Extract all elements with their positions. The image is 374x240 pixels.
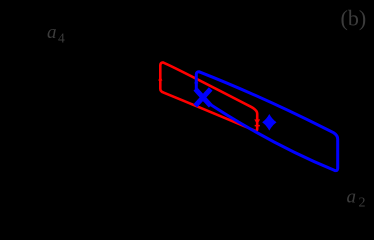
svg-text:4: 4 bbox=[58, 30, 65, 45]
marker X (bold cross) bbox=[195, 89, 210, 106]
svg-text:a: a bbox=[47, 22, 57, 43]
svg-text:2: 2 bbox=[359, 195, 366, 210]
red arrow on left edge (up) bbox=[158, 75, 162, 80]
label a2 bbox=[347, 187, 366, 211]
svg-text:(b): (b) bbox=[341, 6, 367, 31]
red loop bbox=[160, 62, 257, 130]
blue loop bbox=[196, 72, 337, 171]
red arrow on right edge (down) bbox=[254, 119, 260, 124]
marker star (concave diamond) bbox=[262, 114, 276, 131]
svg-text:a: a bbox=[347, 187, 357, 208]
label a4 bbox=[47, 22, 65, 46]
blue arrow on left edge (up) bbox=[194, 78, 198, 83]
